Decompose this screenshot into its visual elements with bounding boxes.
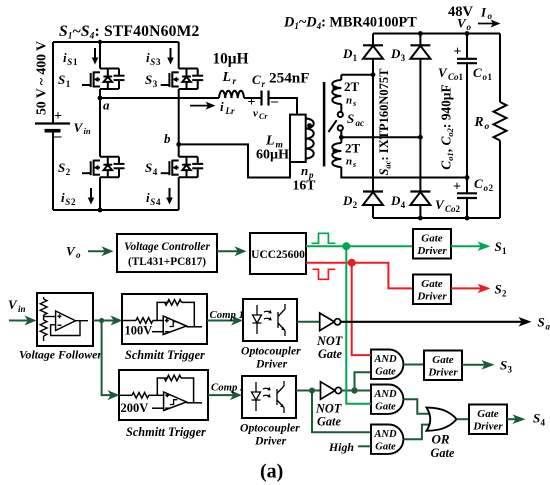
node green junction bbox=[342, 242, 350, 250]
label 50 V ~ 400 V bbox=[34, 41, 49, 115]
svg-text:Comp 1: Comp 1 bbox=[210, 309, 245, 321]
svg-text:1: 1 bbox=[66, 79, 71, 89]
svg-text:ac: ac bbox=[356, 118, 365, 128]
svg-text:in: in bbox=[18, 304, 26, 314]
svg-text:n: n bbox=[346, 156, 352, 168]
svg-text:s: s bbox=[352, 99, 356, 108]
svg-text:C: C bbox=[473, 65, 482, 80]
svg-text:V: V bbox=[74, 120, 84, 135]
op-amp follower bbox=[44, 316, 56, 318]
svg-text:S: S bbox=[58, 72, 65, 87]
svg-text:Schmitt Trigger: Schmitt Trigger bbox=[126, 425, 206, 439]
block optocoupler driver 2 bbox=[242, 376, 296, 418]
magnetizing inductance Lm rectangle bbox=[290, 115, 306, 162]
svg-text:V: V bbox=[66, 244, 76, 259]
wire secondary bottom to cap midpoint bbox=[341, 167, 467, 178]
svg-text:–: – bbox=[53, 129, 62, 145]
wire NOT gate 2 to AND gate 2 bbox=[341, 390, 371, 392]
diode D3 bbox=[419, 34, 421, 46]
secondary winding upper 2T bbox=[340, 75, 342, 80]
svg-text:+: + bbox=[454, 45, 462, 60]
wire UCC to gate driver S1 green bbox=[306, 245, 413, 247]
svg-text:Lr: Lr bbox=[225, 106, 235, 116]
svg-text:Optocoupler: Optocoupler bbox=[241, 345, 301, 358]
node NOT gate 2 output junction bbox=[351, 387, 357, 393]
current iS3 bbox=[146, 50, 161, 67]
svg-text:Comp 2: Comp 2 bbox=[211, 382, 246, 394]
wire UCC to gate driver S2 red bbox=[306, 263, 413, 289]
svg-text:S: S bbox=[495, 239, 502, 254]
svg-text:S: S bbox=[538, 315, 545, 330]
AND gate 2 bbox=[371, 385, 403, 414]
wire NOT gate 1 to Sac arrow bbox=[341, 321, 523, 323]
svg-text:D: D bbox=[390, 193, 401, 208]
svg-text:2T: 2T bbox=[345, 141, 361, 156]
node D1/D2 midpoint bbox=[371, 72, 376, 77]
svg-text:NOT: NOT bbox=[316, 334, 343, 348]
title D1~D4 part number bbox=[283, 14, 417, 31]
svg-text:10µH: 10µH bbox=[213, 51, 249, 68]
wire junction up to AND gate 1 bbox=[355, 372, 372, 390]
svg-text:S: S bbox=[500, 358, 507, 373]
current iS1 bbox=[63, 50, 78, 67]
svg-text:I: I bbox=[480, 5, 487, 20]
switch Sac bbox=[338, 112, 343, 117]
svg-text:r: r bbox=[262, 79, 266, 89]
wire output top rail bbox=[373, 33, 500, 35]
wire follower branch to schmitt trigger 2 bbox=[102, 321, 112, 396]
wire schmitt 1 to optocoupler 1 Comp 1 bbox=[207, 320, 236, 322]
svg-text:S: S bbox=[65, 197, 70, 207]
diode D2 bbox=[363, 190, 383, 192]
svg-text:o: o bbox=[76, 250, 81, 260]
wire Cr to primary bbox=[269, 98, 298, 115]
block optocoupler driver 1 bbox=[243, 299, 297, 341]
svg-text:1: 1 bbox=[488, 72, 493, 82]
capacitor Co1 bbox=[466, 34, 468, 59]
transformer core bbox=[323, 82, 326, 167]
svg-text:D: D bbox=[342, 193, 353, 208]
svg-text:2: 2 bbox=[456, 204, 461, 214]
node a bbox=[98, 96, 103, 101]
icon green pulse bbox=[312, 233, 336, 243]
svg-text:60µH: 60µH bbox=[256, 148, 289, 163]
svg-text:Sac: IXTP160N075T: Sac: IXTP160N075T bbox=[377, 68, 393, 176]
wire bottom rail bbox=[53, 209, 179, 211]
svg-text:2: 2 bbox=[489, 183, 494, 193]
transistor S4 bbox=[161, 157, 204, 178]
svg-text:V: V bbox=[435, 197, 445, 212]
svg-text:254nF: 254nF bbox=[269, 70, 310, 87]
svg-text:3: 3 bbox=[153, 79, 158, 89]
svg-text:Co: Co bbox=[448, 72, 459, 82]
svg-text:2: 2 bbox=[502, 289, 507, 299]
title S1~S4 part number bbox=[59, 23, 200, 41]
label (a) bbox=[260, 461, 283, 483]
svg-text:Gate: Gate bbox=[431, 446, 455, 460]
svg-text:Driver: Driver bbox=[254, 435, 287, 448]
current iS2 bbox=[61, 190, 76, 207]
secondary winding lower 2T bbox=[332, 143, 341, 167]
wire AND gate 3 to OR gate bbox=[403, 425, 433, 440]
svg-text:100V: 100V bbox=[125, 324, 153, 338]
node optocoupler 2 output junction bbox=[309, 388, 315, 394]
primary winding np bbox=[306, 119, 314, 159]
wire output bottom rail bbox=[373, 217, 500, 219]
block gate driver S2 bbox=[413, 275, 451, 305]
current iLr arrow bbox=[190, 105, 209, 107]
wire gate driver to S4 arrow bbox=[507, 418, 518, 420]
svg-text:s: s bbox=[352, 160, 356, 169]
wire left leg S1/S2 bbox=[99, 42, 101, 69]
label 48V Vo bbox=[448, 4, 474, 20]
wire gate driver to S3 arrow bbox=[462, 364, 487, 366]
label Vin bbox=[8, 297, 26, 314]
label Sac IXTP part number rotated bbox=[377, 68, 393, 176]
svg-text:3: 3 bbox=[156, 57, 161, 67]
svg-text:+: + bbox=[453, 180, 461, 195]
wire junction down to AND gate 3 bbox=[312, 391, 371, 433]
svg-text:o: o bbox=[467, 22, 472, 32]
block gate driver S1 bbox=[413, 229, 451, 259]
label Vo bbox=[66, 244, 81, 261]
wire green vertical to AND2 bbox=[346, 246, 371, 404]
svg-text:S: S bbox=[150, 57, 155, 67]
svg-text:S: S bbox=[495, 282, 502, 297]
svg-text:4: 4 bbox=[156, 197, 161, 207]
svg-text:4: 4 bbox=[153, 167, 158, 177]
OR gate bbox=[427, 408, 457, 431]
svg-text:2: 2 bbox=[71, 197, 76, 207]
wire primary bottom to node b bbox=[179, 144, 290, 177]
wire High to AND gate 3 bbox=[358, 445, 371, 447]
svg-text:S1~S4: STF40N60M2: S1~S4: STF40N60M2 bbox=[59, 23, 200, 41]
block UCC25600 bbox=[250, 233, 306, 274]
svg-text:(TL431+PC817): (TL431+PC817) bbox=[128, 256, 206, 268]
wire AND gate 1 to gate driver S3 bbox=[403, 364, 424, 366]
wire Lr to Cr bbox=[244, 97, 262, 99]
svg-text:1: 1 bbox=[459, 72, 464, 82]
svg-text:Schmitt Trigger: Schmitt Trigger bbox=[125, 348, 205, 362]
capacitor Cr bbox=[260, 91, 262, 106]
wire red vertical to AND1 bbox=[352, 263, 371, 355]
svg-text:D: D bbox=[390, 46, 401, 61]
svg-text:+: + bbox=[54, 109, 62, 124]
svg-text:50 V ~ 400 V: 50 V ~ 400 V bbox=[34, 41, 49, 115]
svg-text:–: – bbox=[270, 94, 279, 109]
svg-text:2T: 2T bbox=[344, 79, 360, 94]
svg-text:3: 3 bbox=[401, 53, 406, 63]
svg-text:in: in bbox=[84, 126, 91, 136]
svg-text:UCC25600: UCC25600 bbox=[251, 249, 305, 261]
svg-text:S: S bbox=[58, 160, 65, 175]
svg-text:S: S bbox=[347, 111, 354, 126]
NOT gate 2 bbox=[321, 382, 342, 400]
svg-text:R: R bbox=[474, 114, 484, 129]
svg-text:200V: 200V bbox=[121, 401, 149, 415]
svg-text:ac: ac bbox=[546, 322, 550, 332]
svg-text:o: o bbox=[488, 11, 493, 21]
svg-text:L: L bbox=[265, 134, 275, 149]
svg-text:v: v bbox=[253, 108, 258, 120]
node cap midpoint bbox=[465, 175, 470, 180]
svg-text:Cr: Cr bbox=[259, 112, 268, 121]
wire AND gate 2 to OR gate bbox=[403, 399, 433, 414]
svg-text:2: 2 bbox=[353, 200, 358, 210]
block voltage follower bbox=[37, 293, 93, 346]
svg-text:D1~D4: MBR40100PT: D1~D4: MBR40100PT bbox=[283, 14, 417, 31]
current iS4 bbox=[146, 190, 161, 207]
svg-text:Co: Co bbox=[445, 204, 456, 214]
svg-text:S: S bbox=[145, 72, 152, 87]
wire gate driver to S2 arrow bbox=[451, 287, 482, 289]
wire Vin arrow into voltage follower bbox=[9, 320, 30, 322]
transistor S2 bbox=[82, 157, 125, 178]
svg-text:C: C bbox=[252, 72, 261, 87]
svg-text:Driver: Driver bbox=[255, 358, 288, 371]
svg-text:Optocoupler: Optocoupler bbox=[240, 422, 300, 435]
svg-text:1: 1 bbox=[502, 246, 507, 256]
AND gate 1 bbox=[371, 350, 403, 379]
svg-text:Voltage Controller: Voltage Controller bbox=[124, 241, 210, 253]
battery Vin source bbox=[52, 42, 54, 124]
svg-text:Voltage Follower: Voltage Follower bbox=[19, 348, 102, 362]
wire right leg S3/S4 bbox=[178, 42, 180, 69]
resistor divider bbox=[43, 297, 45, 299]
AND gate 3 bbox=[371, 425, 403, 454]
svg-text:Gate: Gate bbox=[317, 415, 341, 429]
svg-text:D: D bbox=[342, 46, 353, 61]
wire top rail bbox=[53, 41, 179, 43]
svg-text:(a): (a) bbox=[260, 461, 283, 483]
node b bbox=[176, 142, 181, 147]
svg-text:a: a bbox=[103, 98, 110, 113]
transistor S3 bbox=[161, 69, 204, 90]
svg-text:1: 1 bbox=[353, 53, 358, 63]
block gate driver S4 bbox=[469, 405, 507, 435]
svg-text:2: 2 bbox=[66, 167, 71, 177]
svg-text:V: V bbox=[457, 16, 467, 31]
inductor Lr bbox=[219, 91, 244, 98]
wire schmitt 2 to optocoupler 2 Comp 2 bbox=[208, 394, 235, 396]
resistor Ro bbox=[499, 34, 501, 103]
svg-text:High: High bbox=[328, 440, 354, 454]
node secondary center tap bbox=[340, 131, 342, 143]
svg-text:L: L bbox=[222, 70, 232, 85]
wire optocoupler 1 to NOT gate 1 bbox=[297, 321, 320, 323]
wire optocoupler 2 to NOT gate 2 bbox=[296, 390, 321, 392]
svg-text:S: S bbox=[67, 57, 72, 67]
block gate driver S3 bbox=[424, 351, 462, 381]
svg-text:S: S bbox=[145, 160, 152, 175]
svg-text:4: 4 bbox=[541, 418, 546, 428]
label Co1 Co2 940uF rotated bbox=[439, 84, 456, 169]
svg-text:o: o bbox=[485, 122, 490, 132]
svg-text:NOT: NOT bbox=[315, 402, 342, 416]
wire follower to schmitt trigger 1 bbox=[93, 320, 116, 322]
svg-text:4: 4 bbox=[401, 200, 406, 210]
svg-text:1: 1 bbox=[73, 57, 78, 67]
wire node a to resonant tank bbox=[100, 97, 219, 99]
wire Vo arrow into voltage controller bbox=[88, 250, 107, 252]
svg-text:i: i bbox=[220, 99, 224, 114]
block voltage controller bbox=[117, 234, 217, 272]
svg-text:n: n bbox=[346, 95, 352, 107]
svg-text:C: C bbox=[474, 176, 483, 191]
transistor S1 bbox=[82, 69, 125, 90]
block schmitt trigger 1 bbox=[122, 294, 207, 344]
diode D4 bbox=[410, 190, 430, 192]
NOT gate 1 bbox=[320, 313, 341, 331]
current Io arrow bbox=[480, 5, 493, 22]
block schmitt trigger 2 bbox=[119, 370, 208, 420]
node red junction bbox=[348, 259, 356, 267]
wire OR gate to gate driver S4 bbox=[457, 418, 470, 420]
svg-text:S: S bbox=[533, 411, 540, 426]
label High bbox=[328, 440, 354, 454]
diode D1 bbox=[372, 34, 374, 46]
icon red pulse bbox=[313, 269, 336, 279]
svg-text:b: b bbox=[164, 131, 171, 146]
svg-text:r: r bbox=[233, 77, 237, 87]
svg-text:V: V bbox=[438, 65, 448, 80]
capacitor Co2 bbox=[457, 192, 477, 194]
svg-text:S: S bbox=[150, 197, 155, 207]
wire D1/D2 string bbox=[372, 75, 374, 192]
svg-text:n: n bbox=[301, 163, 308, 178]
svg-text:Gate: Gate bbox=[318, 347, 342, 361]
wire secondary top to D1/D2 midpoint bbox=[341, 74, 373, 76]
wire gate driver to S1 arrow bbox=[451, 245, 482, 247]
svg-text:OR: OR bbox=[432, 432, 450, 447]
svg-text:V: V bbox=[8, 297, 18, 312]
wire controller to UCC25600 bbox=[217, 250, 240, 252]
wire center tap to D3/D4 midpoint bbox=[341, 136, 420, 138]
svg-text:16T: 16T bbox=[293, 178, 316, 193]
svg-text:3: 3 bbox=[508, 365, 513, 375]
